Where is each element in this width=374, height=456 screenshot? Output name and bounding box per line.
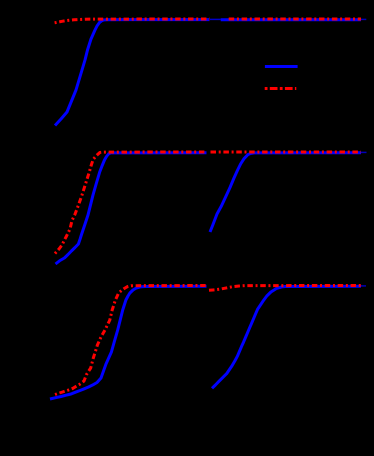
panel 3 (middle-left): red dash-dot completeness curve [55,152,207,254]
panel 3 (middle-left): blue solid completeness curve [56,153,207,264]
panel 2 (top-right): thin blue tail segment [361,18,366,20]
panel 5 (bottom-left): red dash-dot completeness curve [55,286,207,395]
panel 6 (bottom-right): thin blue tail segment [361,285,366,287]
panel 1 (top-left): red dash-dot curve [55,19,210,23]
legend: red dash-dot sample line [265,87,297,90]
panel 4 (middle-right): blue solid completeness curve [210,153,361,232]
panel 4 (middle-right): thin blue tail segment [361,151,367,153]
panel 2 (top-right): blue solid line at plateau [221,18,361,21]
panel 2 (top-right): thin blue lead-in segment [210,18,221,20]
legend: blue solid sample line [265,65,298,68]
panel 4 (middle-right): red dash-dot line at plateau [211,151,362,154]
panel 6 (bottom-right): red dash-dot curve with shallow dip [209,286,361,291]
panel 1 (top-left): blue solid completeness curve [55,20,210,126]
panel 5 (bottom-left): blue solid completeness curve [50,286,207,399]
panel 6 (bottom-right): blue solid completeness curve [212,286,361,388]
panel 2 (top-right): red dash-dot line at plateau [229,18,361,21]
